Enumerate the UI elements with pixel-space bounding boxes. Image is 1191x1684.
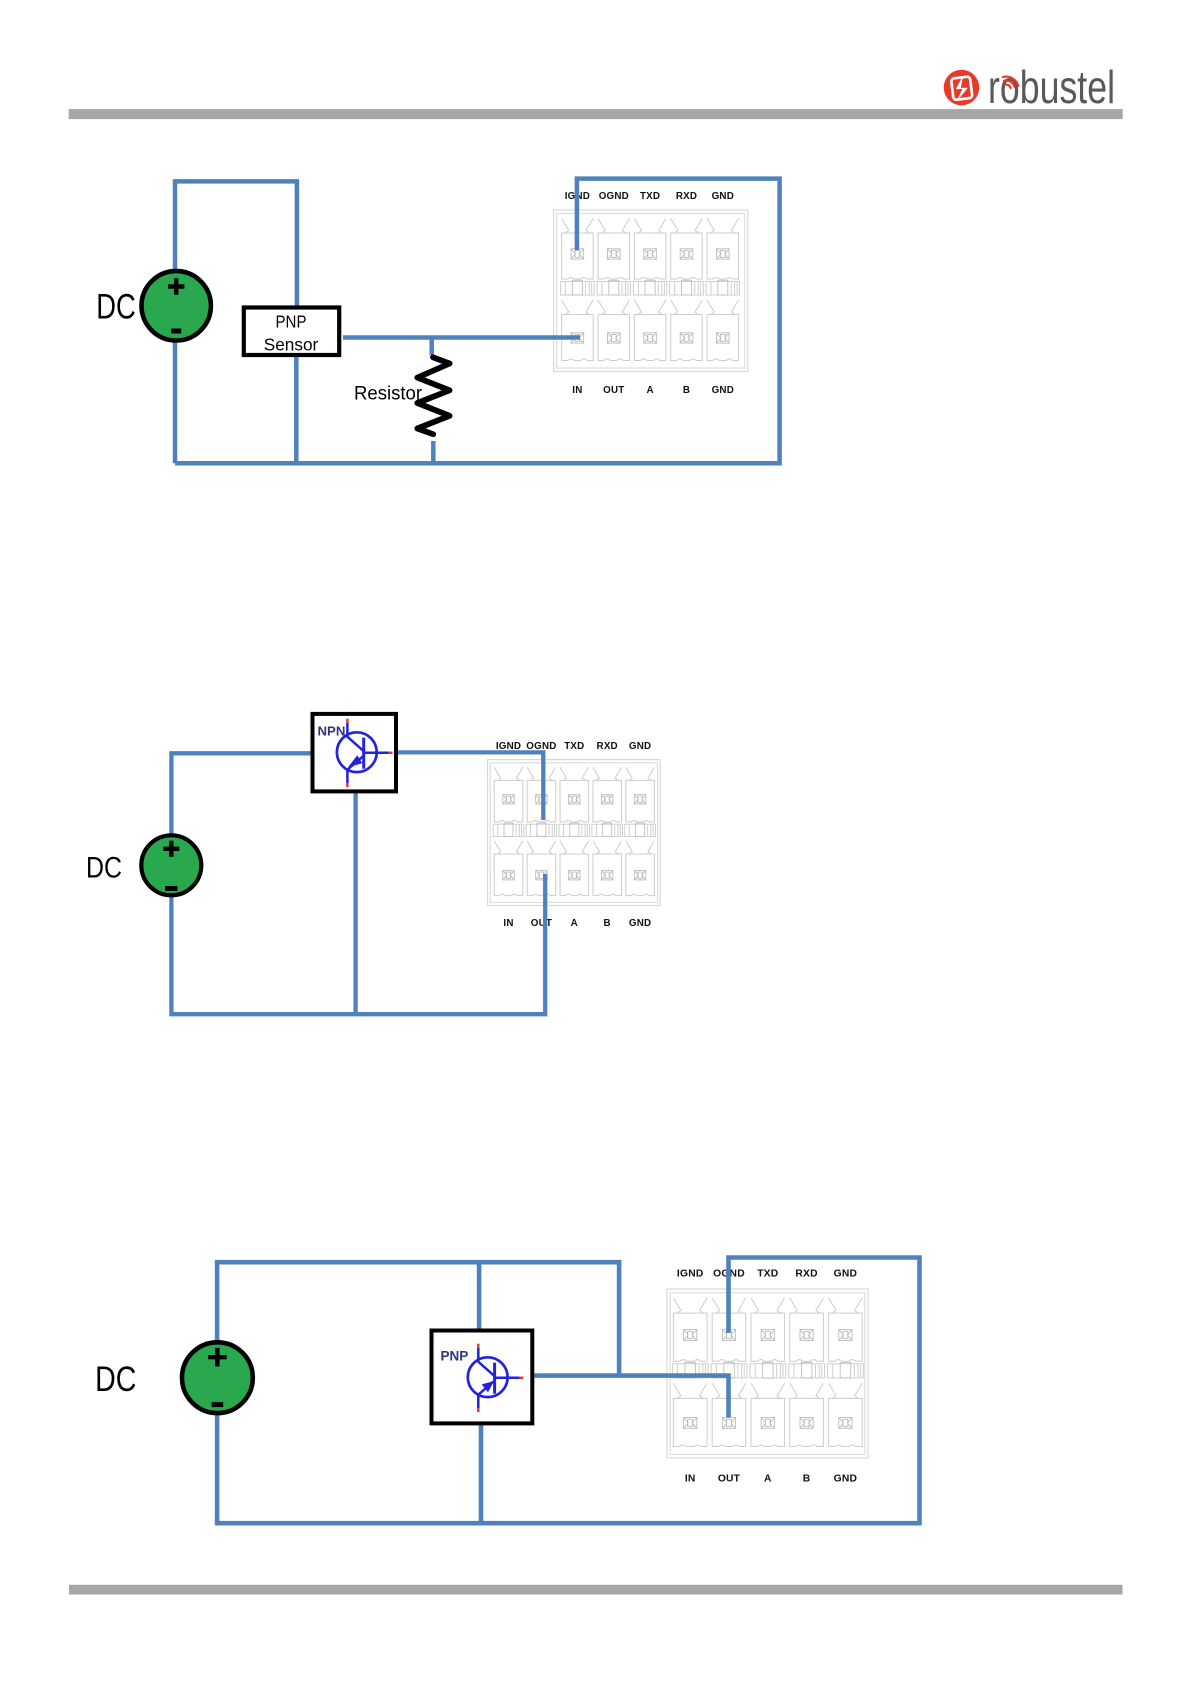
svg-text:A: A bbox=[571, 918, 578, 929]
resistor R (zigzag) bbox=[417, 357, 449, 434]
circuit3 minus terminal mark bbox=[212, 1402, 224, 1407]
circuit3 DC source circle bbox=[182, 1342, 253, 1413]
NPN transistor box U2 bbox=[313, 714, 397, 792]
svg-text:DC: DC bbox=[95, 1360, 136, 1399]
connector3 top row cell 5 screw terminal bbox=[839, 1330, 852, 1341]
connector1 top row cell 5 screw terminal bbox=[717, 249, 730, 259]
transistor Q-PNP base bar bbox=[493, 1363, 496, 1394]
footer rule bbox=[69, 1585, 1123, 1595]
wire: top rail tap down, left rail, bottom rail, right rail, to OGND pin bbox=[217, 1258, 919, 1524]
connector3 middle contact strip cell 2 bbox=[711, 1363, 747, 1378]
connector3 bottom row cell 2 plug outline bbox=[712, 1383, 746, 1446]
connector3 middle contact strip cell 3 bbox=[750, 1363, 786, 1378]
connector2 middle contact strip cell 2 bbox=[526, 823, 557, 836]
circuit1 DC source circle bbox=[142, 271, 211, 340]
PNP Sensor box bbox=[244, 308, 339, 356]
connector3 bottom row cell 3 plug outline bbox=[751, 1383, 785, 1446]
svg-text:OUT: OUT bbox=[718, 1473, 741, 1484]
wire: DC+ top wire, left rail and to PNP sensor bbox=[175, 181, 297, 463]
svg-text:RXD: RXD bbox=[676, 191, 697, 202]
connector3 bottom row cell 1 screw terminal bbox=[684, 1418, 697, 1429]
transistor Q-NPN base bar bbox=[362, 738, 365, 769]
svg-text:IGND: IGND bbox=[677, 1268, 704, 1279]
connector1 middle contact strip cell 1 bbox=[561, 280, 595, 295]
connector2 top row cell 2 screw terminal bbox=[536, 795, 547, 804]
transistor Q-NPN emitter pin dot (red) bbox=[346, 783, 349, 787]
transistor Q-NPN base pin dot (red) bbox=[389, 752, 393, 755]
svg-text:OUT: OUT bbox=[603, 385, 624, 396]
connector2 middle contact strip cell 5 bbox=[625, 823, 656, 836]
connector1 middle contact strip cell 2 bbox=[597, 280, 631, 295]
svg-text:IN: IN bbox=[572, 385, 582, 396]
robustel logo mark white R glyph bbox=[951, 76, 972, 100]
wire: resistor bottom stub bbox=[431, 441, 436, 463]
connector1 top row cell 5 plug outline bbox=[707, 219, 739, 280]
transistor Q-PNP collector pin dot (red) bbox=[477, 1344, 480, 1348]
circuit2 minus terminal mark bbox=[165, 886, 177, 891]
connector2 top row cell 5 screw terminal bbox=[634, 795, 645, 804]
wire: top rail to PNP box top stub bbox=[477, 1262, 482, 1331]
robustel logo mark (red circle) bbox=[944, 70, 980, 106]
connector2 middle contact strip cell 4 bbox=[592, 823, 623, 836]
connector1 bottom row cell 2 plug outline bbox=[598, 300, 630, 361]
transistor Q-NPN collector pin dot (red) bbox=[346, 719, 349, 723]
wire: resistor top stub bbox=[429, 338, 434, 356]
svg-text:B: B bbox=[604, 918, 611, 929]
svg-text:Resistor: Resistor bbox=[354, 384, 423, 405]
transistor Q-NPN emitter arrow (pointing out) bbox=[348, 755, 362, 767]
wire: IGND pin up, across top right, right rail, bottom rail bbox=[175, 179, 780, 464]
connector1 bottom row cell 2 screw terminal bbox=[608, 333, 621, 343]
connector1 top row cell 1 plug outline bbox=[562, 219, 594, 280]
connector3 top row cell 2 screw terminal bbox=[722, 1330, 735, 1341]
svg-text:GND: GND bbox=[834, 1268, 857, 1279]
connector1 middle contact strip cell 5 bbox=[706, 280, 740, 295]
svg-text:robustel: robustel bbox=[988, 61, 1115, 113]
connector2 bottom row cell 2 screw terminal bbox=[536, 871, 547, 880]
circuit3 plus terminal mark bbox=[208, 1348, 227, 1367]
connector1 bottom row cell 1 plug outline bbox=[562, 300, 594, 361]
connector2 bottom row cell 5 plug outline bbox=[626, 841, 655, 896]
svg-text:GND: GND bbox=[712, 191, 734, 202]
connector2 bottom row cell 3 screw terminal bbox=[569, 871, 580, 880]
circuit2 plus terminal mark bbox=[163, 841, 179, 857]
svg-text:PNP: PNP bbox=[276, 312, 307, 332]
connector1 top row cell 3 screw terminal bbox=[644, 249, 657, 259]
wire: NPN box right lead to OGND pin bbox=[395, 752, 544, 820]
connector1 top row cell 4 plug outline bbox=[671, 219, 703, 280]
svg-text:RXD: RXD bbox=[597, 741, 618, 752]
connector2 bottom row cell 1 plug outline bbox=[494, 841, 523, 896]
connector2 top row cell 1 screw terminal bbox=[503, 795, 514, 804]
transistor Q-PNP emitter arrow (pointing in) bbox=[482, 1381, 494, 1392]
transistor Q-PNP emitter pin dot (red) bbox=[477, 1408, 480, 1412]
wire: DC+ to NPN box, left rail, bottom rail, up to OUT pin bbox=[171, 753, 545, 1014]
wire: PNP sensor output to IN pin bbox=[343, 335, 580, 340]
connector3 top row cell 2 plug outline bbox=[712, 1298, 746, 1361]
svg-text:A: A bbox=[646, 385, 653, 396]
connector1 bottom row cell 4 screw terminal bbox=[680, 333, 693, 343]
svg-text:DC: DC bbox=[96, 288, 136, 327]
transistor Q-PNP base lead (right) bbox=[495, 1377, 520, 1380]
connector3 top row cell 3 screw terminal bbox=[761, 1330, 774, 1341]
connector3 middle contact strip cell 1 bbox=[672, 1363, 708, 1378]
svg-text:NPN: NPN bbox=[318, 724, 346, 739]
svg-text:GND: GND bbox=[629, 741, 651, 752]
svg-text:IN: IN bbox=[503, 918, 513, 929]
connector1 bottom row cell 4 plug outline bbox=[671, 300, 703, 361]
svg-text:IN: IN bbox=[685, 1473, 696, 1484]
connector3 middle contact strip cell 4 bbox=[789, 1363, 825, 1378]
connector3 bottom row cell 4 screw terminal bbox=[800, 1418, 813, 1429]
connector3 top row cell 4 screw terminal bbox=[800, 1330, 813, 1341]
connector2 bottom row cell 5 screw terminal bbox=[634, 871, 645, 880]
connector2 top row cell 2 plug outline bbox=[527, 767, 556, 822]
svg-text:B: B bbox=[683, 385, 690, 396]
connector1 bottom row cell 3 plug outline bbox=[634, 300, 666, 361]
svg-text:PNP: PNP bbox=[441, 1349, 469, 1364]
transistor Q-NPN collector lead (top) bbox=[347, 723, 363, 752]
svg-text:GND: GND bbox=[834, 1473, 857, 1484]
wire: PNP box right lead to OUT pin bbox=[533, 1376, 729, 1418]
connector2 bottom row cell 4 plug outline bbox=[593, 841, 622, 896]
connector3 top row cell 3 plug outline bbox=[751, 1298, 785, 1361]
connector3 bottom row cell 1 plug outline bbox=[673, 1383, 707, 1446]
connector1 top row cell 2 screw terminal bbox=[608, 249, 621, 259]
connector2 top row cell 3 plug outline bbox=[560, 767, 589, 822]
svg-text:TXD: TXD bbox=[564, 741, 584, 752]
svg-text:A: A bbox=[764, 1473, 772, 1484]
connector2 top row cell 4 plug outline bbox=[593, 767, 622, 822]
connector2 bottom row cell 1 screw terminal bbox=[503, 871, 514, 880]
transistor Q-NPN base lead (right) bbox=[364, 752, 389, 755]
wire: NPN box bottom stub to bottom rail bbox=[353, 791, 357, 1014]
connector2 top row cell 1 plug outline bbox=[494, 767, 523, 822]
connector1 top row cell 1 screw terminal bbox=[571, 249, 584, 259]
connector3 top row cell 5 plug outline bbox=[829, 1298, 863, 1361]
connector3 middle contact strip cell 5 bbox=[828, 1363, 864, 1378]
svg-text:Sensor: Sensor bbox=[264, 335, 319, 355]
connector3 bottom row cell 5 screw terminal bbox=[839, 1418, 852, 1429]
wire: PNP sensor bottom return stub bbox=[294, 354, 299, 462]
connector1 bottom row cell 1 screw terminal bbox=[571, 333, 584, 343]
transistor Q-PNP collector lead (top) bbox=[478, 1348, 494, 1377]
connector1 bottom row cell 5 plug outline bbox=[707, 300, 739, 361]
connector2 middle contact strip cell 1 bbox=[493, 823, 524, 836]
wire: PNP box bottom stub to bottom rail bbox=[479, 1421, 484, 1522]
svg-text:GND: GND bbox=[712, 385, 734, 396]
connector1 middle contact strip cell 4 bbox=[670, 280, 704, 295]
transistor Q-PNP emitter lead (bottom) bbox=[478, 1381, 494, 1409]
svg-text:TXD: TXD bbox=[757, 1268, 778, 1279]
PNP transistor box U3 bbox=[432, 1331, 533, 1424]
connector3 connector body outline bbox=[667, 1289, 868, 1458]
connector3 bottom row cell 5 plug outline bbox=[829, 1383, 863, 1446]
transistor Q-NPN symbol circle bbox=[337, 732, 377, 772]
connector1 top row cell 3 plug outline bbox=[634, 219, 666, 280]
connector1 connector body outline bbox=[554, 210, 748, 372]
svg-text:OUT: OUT bbox=[531, 918, 552, 929]
connector1 top row cell 4 screw terminal bbox=[680, 249, 693, 259]
connector2 middle contact strip cell 3 bbox=[559, 823, 590, 836]
connector3 top row cell 1 screw terminal bbox=[684, 1330, 697, 1341]
connector2 bottom row cell 4 screw terminal bbox=[602, 871, 613, 880]
circuit2 DC source circle bbox=[141, 835, 201, 895]
svg-text:TXD: TXD bbox=[640, 191, 660, 202]
robustel logo radio waves over o bbox=[1003, 77, 1019, 88]
connector3 bottom row cell 4 plug outline bbox=[790, 1383, 824, 1446]
connector2 top row cell 3 screw terminal bbox=[569, 795, 580, 804]
transistor Q-PNP symbol circle bbox=[468, 1357, 508, 1397]
connector2 top row cell 4 screw terminal bbox=[602, 795, 613, 804]
header rule bbox=[69, 109, 1123, 119]
connector2 top row cell 5 plug outline bbox=[626, 767, 655, 822]
connector1 bottom row cell 5 screw terminal bbox=[717, 333, 730, 343]
connector3 bottom row cell 3 screw terminal bbox=[761, 1418, 774, 1429]
transistor Q-NPN emitter lead (bottom) bbox=[347, 756, 363, 784]
svg-text:B: B bbox=[803, 1473, 811, 1484]
connector1 top row cell 2 plug outline bbox=[598, 219, 630, 280]
circuit1 minus terminal mark bbox=[171, 329, 181, 334]
connector1 bottom row cell 3 screw terminal bbox=[644, 333, 657, 343]
connector3 top row cell 1 plug outline bbox=[673, 1298, 707, 1361]
connector1 middle contact strip cell 3 bbox=[633, 280, 667, 295]
transistor Q-PNP base pin dot (red) bbox=[520, 1377, 524, 1380]
svg-text:RXD: RXD bbox=[795, 1268, 817, 1279]
connector2 connector body outline bbox=[488, 760, 661, 906]
connector3 top row cell 4 plug outline bbox=[790, 1298, 824, 1361]
svg-text:OGND: OGND bbox=[599, 191, 629, 202]
connector3 bottom row cell 2 screw terminal bbox=[722, 1418, 735, 1429]
connector2 bottom row cell 3 plug outline bbox=[560, 841, 589, 896]
svg-text:GND: GND bbox=[629, 918, 651, 929]
circuit1 plus terminal mark bbox=[168, 278, 184, 294]
svg-text:DC: DC bbox=[86, 851, 122, 884]
connector2 bottom row cell 2 plug outline bbox=[527, 841, 556, 896]
